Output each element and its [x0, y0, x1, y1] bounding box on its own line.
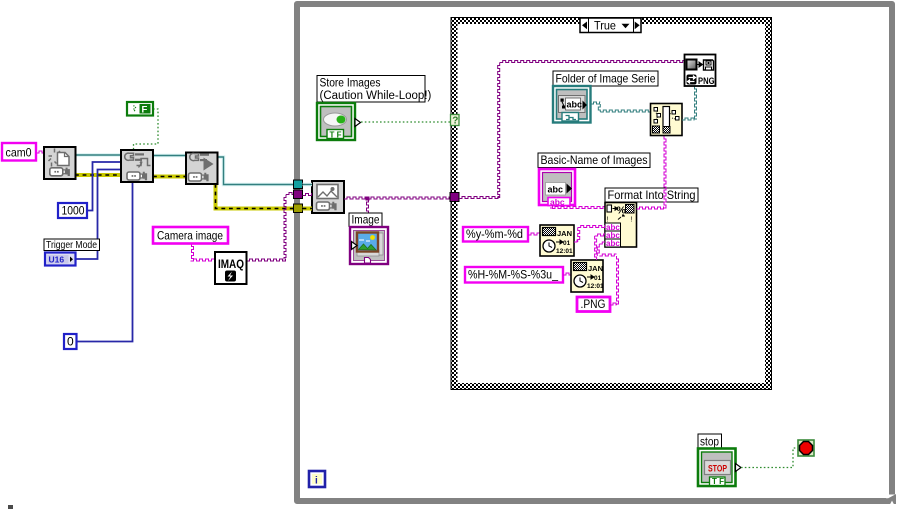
while loop border [297, 4, 896, 504]
case structure border (selected, marching-ants) [451, 18, 772, 390]
wire: junction down to Image indicator (purple squiggle) [367, 199, 369, 214]
wire: date/time 1 -> Format row1 (pink squiggle) [574, 226, 605, 243]
label Basic-Name of Images [538, 153, 650, 168]
svg-text:!: ! [631, 217, 633, 224]
string control Basic-Name of Images [539, 169, 575, 207]
wire: cam0 string to IMAQdx Open (pink squiggle) [36, 151, 44, 153]
wire: numeric 0 to Configure bottom (blue) [76, 182, 133, 342]
wire: tunnel->GetImage error (yellow/black) [303, 207, 313, 211]
svg-text:Trigger Mode: Trigger Mode [46, 239, 97, 251]
numeric constant 0 [64, 334, 77, 349]
tunnel: session (teal) on while loop border [294, 180, 303, 189]
IMAQ Create VI [215, 252, 247, 284]
svg-text:U16: U16 [49, 255, 65, 265]
svg-text:(Caution While-Loop!): (Caution While-Loop!) [320, 90, 432, 102]
label Trigger Mode [44, 239, 100, 251]
svg-text:PNG: PNG [698, 76, 715, 86]
svg-text:abc: abc [567, 100, 583, 110]
svg-text:Store Images: Store Images [320, 78, 381, 90]
svg-text:Format Into String: Format Into String [608, 188, 696, 202]
wire: IMAQ Create image out to loop tunnel (purple squiggle) [247, 193, 295, 262]
svg-text:stop: stop [700, 437, 719, 449]
wire: .PNG -> Format row3 (pink squiggle) [597, 242, 618, 305]
svg-text:Camera image: Camera image [157, 228, 223, 242]
svg-text:JAN: JAN [588, 264, 603, 273]
case selector label "True" [580, 18, 641, 33]
numeric constant 1000 [58, 203, 87, 218]
wire: error Open->Configure (yellow/black) [75, 173, 121, 177]
wire: Format output -> Build Path name (pink squiggle) [637, 136, 667, 209]
wire: session Start->loop tunnel (teal) [217, 157, 294, 185]
wire: %H.. -> date/time 2 (pink squiggle) [563, 273, 571, 275]
wire: case tunnel up and to Write PNG (purple squiggle) [459, 61, 685, 199]
wire: %y-%m-%d -> date/time 1 (pink squiggle) [528, 233, 540, 235]
wire: folder path -> Build Path (teal squiggle) [591, 102, 651, 112]
svg-text:IMAQ: IMAQ [218, 259, 244, 271]
svg-text:i: i [315, 476, 318, 487]
wire: GetImage -> case tunnel (purple squiggle) [344, 197, 451, 199]
wire: F boolean const to Configure top (green dotted) [134, 109, 159, 150]
svg-text:%H-%M-%S-%3u_: %H-%M-%S-%3u_ [468, 270, 559, 282]
string constant .PNG [577, 297, 610, 312]
label stop [698, 434, 722, 449]
svg-text:T F: T F [330, 130, 342, 139]
case selector terminal "?" [451, 115, 460, 127]
boolean slide switch control Store Images [317, 103, 361, 140]
label Image [349, 213, 382, 227]
Format Date/Time String VI 1 [540, 225, 574, 256]
IMAQdx Configure Trigger VI (icon 2) [121, 150, 153, 182]
while loop conditional terminal (stop sign) [798, 440, 814, 456]
path control Folder of Image Serie [553, 86, 591, 123]
svg-text:abc: abc [548, 185, 564, 195]
wire: stop -> conditional terminal (green dotted) [741, 448, 798, 468]
wire: Basic-Name -> Format Into String initial (pink squiggle) [551, 205, 606, 209]
svg-text:01: 01 [563, 240, 571, 247]
svg-text:True: True [594, 19, 616, 33]
svg-text:Folder of Image Serie: Folder of Image Serie [556, 72, 656, 86]
IMAQdx Get Image VI (icon 4, inside loop) [312, 181, 344, 213]
label Format Into String [605, 188, 698, 202]
svg-text:12:01: 12:01 [556, 248, 573, 255]
Build Path function [651, 104, 683, 136]
IMAQdx Start Acquisition VI (icon 3) [186, 153, 218, 185]
svg-text:Basic-Name of Images: Basic-Name of Images [541, 153, 648, 167]
svg-text:Image: Image [352, 213, 380, 227]
Image indicator (IMAQ image display) [350, 227, 388, 264]
boolean stop button [698, 449, 741, 487]
while loop iteration terminal i [309, 471, 325, 487]
svg-text:JAN: JAN [557, 229, 572, 238]
svg-text:T F: T F [712, 477, 724, 486]
label Folder of Image Serie [553, 71, 658, 86]
svg-text:cam0: cam0 [6, 146, 32, 160]
label Store Images (Caution While-Loop!) [317, 76, 432, 103]
junction on image wire [366, 197, 370, 201]
wire: session out Open->Configure (teal) [75, 153, 121, 157]
svg-text:01: 01 [594, 275, 602, 282]
tunnel: image (purple) on while loop border [294, 190, 303, 199]
wire: error Configure->Start (yellow/black) [153, 175, 186, 179]
svg-text:.PNG: .PNG [581, 299, 606, 311]
Format Into String node [605, 203, 637, 249]
svg-text:F: F [142, 105, 148, 116]
svg-text:0: 0 [67, 335, 74, 349]
enum control U16 Trigger Mode [45, 253, 76, 266]
string constant cam0 [2, 143, 36, 161]
Format Date/Time String VI 2 [571, 260, 603, 292]
IMAQdx Open Camera VI (icon 1) [44, 147, 76, 179]
tunnel: error (dark yellow) on while loop border [294, 204, 303, 213]
wire: tunnel->GetImage session (teal) [303, 183, 313, 187]
tunnel: image into case structure [450, 193, 459, 202]
wire: tunnel->GetImage image (purple squiggle) [303, 194, 313, 196]
wire: U16 Trigger Mode to Configure (blue) [75, 170, 121, 260]
wire: date/time 2 -> Format row2 (pink squiggle) [595, 234, 605, 260]
wire: session Configure->Start (teal) [153, 154, 186, 158]
string constant %y-%m-%d [463, 227, 528, 242]
svg-text:12:01: 12:01 [587, 283, 604, 290]
svg-text:abc: abc [606, 239, 620, 248]
wire: numeric 1000 to Configure (blue) [87, 162, 121, 211]
svg-text:STOP: STOP [708, 464, 727, 474]
svg-text:1000: 1000 [62, 204, 85, 218]
stray mark bottom-left [8, 505, 13, 509]
wire: error Start->loop tunnel (yellow/black) [216, 184, 295, 209]
label Camera image [153, 227, 228, 244]
wire: Camera image string to IMAQ Create (pink squiggle) [191, 244, 216, 262]
wire: Store Images -> case selector ? (green dotted) [361, 121, 451, 123]
IMAQ Write PNG File VI [685, 55, 716, 87]
svg-text:?: ? [452, 116, 458, 127]
svg-text:%y-%m-%d: %y-%m-%d [466, 229, 523, 241]
string constant %H-%M-%S-%3u_ [465, 267, 563, 283]
boolean constant F (false) [127, 102, 153, 116]
wire: Build Path -> Write PNG (teal squiggle) [682, 86, 697, 120]
